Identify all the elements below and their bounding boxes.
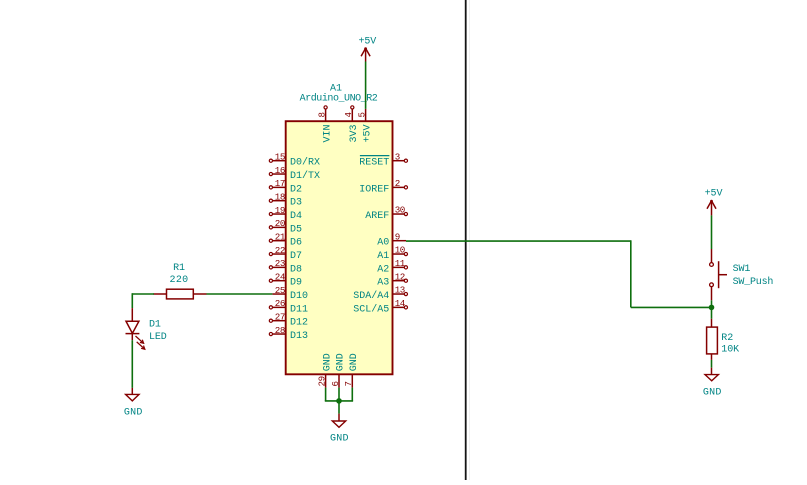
pin 18 D3 — [269, 191, 302, 208]
svg-text:A0: A0 — [377, 238, 389, 249]
R1 reference label — [173, 263, 185, 274]
resistor R1 — [153, 289, 206, 299]
ground symbol (right) — [705, 368, 718, 381]
resistor R2 — [707, 319, 718, 360]
svg-text:GND: GND — [336, 353, 347, 371]
svg-text:R2: R2 — [721, 333, 733, 344]
svg-text:30: 30 — [395, 205, 405, 216]
R2 value 10K — [721, 344, 739, 355]
svg-text:+5V: +5V — [358, 37, 376, 48]
wire D10 to R1 — [207, 293, 273, 295]
wire to junction — [631, 306, 712, 308]
pin 11 A2 — [377, 258, 407, 275]
pin 2 IOREF — [359, 178, 407, 195]
pin 12 A3 — [377, 271, 407, 288]
svg-text:GND: GND — [124, 408, 143, 419]
svg-text:+5V: +5V — [362, 124, 373, 142]
svg-text:25: 25 — [275, 285, 285, 296]
svg-text:9: 9 — [395, 231, 400, 242]
pin 3 RESET — [359, 151, 407, 168]
svg-text:D1/TX: D1/TX — [290, 170, 320, 182]
svg-text:D9: D9 — [290, 278, 302, 289]
svg-text:SCL/A5: SCL/A5 — [353, 303, 389, 315]
svg-text:D4: D4 — [290, 211, 302, 222]
svg-text:17: 17 — [275, 178, 285, 189]
svg-text:28: 28 — [275, 325, 285, 336]
svg-text:A3: A3 — [377, 278, 389, 289]
R2 reference label — [721, 333, 733, 344]
pin 28 D13 — [269, 325, 308, 342]
pin 16 D1/TX — [269, 165, 320, 182]
svg-text:A1: A1 — [330, 83, 342, 94]
svg-text:23: 23 — [275, 258, 285, 269]
pin 29 GND — [316, 353, 333, 387]
svg-text:15: 15 — [275, 152, 285, 163]
svg-text:A2: A2 — [377, 264, 389, 275]
svg-text:D5: D5 — [290, 224, 302, 235]
svg-text:D10: D10 — [290, 291, 308, 302]
svg-text:R1: R1 — [173, 263, 185, 274]
wire pin29 down — [325, 388, 327, 401]
svg-text:D13: D13 — [290, 331, 308, 342]
svg-text:16: 16 — [275, 165, 285, 176]
value Arduino_UNO_R2 — [300, 93, 378, 105]
svg-text:IOREF: IOREF — [359, 184, 389, 195]
GND value label (right) — [703, 388, 722, 399]
wire +5V to pin 5 — [365, 62, 367, 109]
svg-text:SW_Push: SW_Push — [733, 276, 774, 288]
wire SW1 to junction — [711, 300, 713, 307]
svg-text:D2: D2 — [290, 184, 302, 195]
GND value label (left) — [124, 408, 143, 419]
ground symbol (below Arduino) — [332, 414, 345, 428]
svg-text:21: 21 — [275, 231, 286, 242]
svg-text:GND: GND — [703, 388, 722, 399]
wire pin7 down — [351, 388, 353, 401]
svg-text:5: 5 — [356, 112, 367, 117]
svg-text:VIN: VIN — [322, 124, 333, 142]
svg-text:SDA/A4: SDA/A4 — [353, 290, 389, 302]
svg-text:3: 3 — [395, 151, 400, 162]
svg-text:+5V: +5V — [705, 189, 723, 200]
svg-text:26: 26 — [275, 298, 285, 309]
pin 26 D11 — [269, 298, 308, 315]
svg-text:6: 6 — [330, 381, 341, 386]
svg-text:LED: LED — [149, 332, 167, 343]
SW1 reference label — [733, 264, 751, 275]
svg-text:10: 10 — [395, 245, 405, 256]
svg-text:11: 11 — [395, 258, 406, 269]
pin 25 D10 — [272, 285, 308, 302]
svg-text:27: 27 — [275, 311, 285, 322]
svg-text:18: 18 — [275, 191, 285, 202]
svg-text:7: 7 — [343, 381, 354, 386]
svg-text:24: 24 — [275, 271, 286, 282]
pin 17 D2 — [269, 178, 302, 195]
pin 30 AREF — [365, 205, 407, 222]
wire A0 vertical drop — [630, 240, 632, 307]
wire A0 horizontal — [406, 240, 631, 242]
junction gnd bus — [336, 398, 342, 404]
wire LED to GND — [131, 340, 133, 388]
GND value label (below Arduino) — [330, 433, 349, 444]
+5V value label (right) — [705, 189, 723, 200]
IC A1 Arduino_UNO_R2 body — [286, 121, 393, 374]
pin 7 GND — [343, 353, 360, 387]
ground symbol (left) — [126, 388, 139, 401]
pin 8 VIN — [316, 106, 333, 143]
pin 4 3V3 — [343, 106, 360, 143]
svg-text:GND: GND — [322, 353, 333, 371]
svg-text:GND: GND — [330, 433, 349, 444]
reference A1 — [330, 83, 342, 94]
wire R2 to GND — [711, 360, 713, 368]
pin 24 D9 — [269, 271, 302, 288]
svg-text:8: 8 — [316, 112, 327, 117]
svg-text:D1: D1 — [149, 319, 161, 330]
sheet divider line — [465, 0, 470, 480]
SW1 value SW_Push — [733, 276, 774, 288]
svg-text:RESET: RESET — [359, 158, 389, 169]
power symbol +5V (right) — [707, 200, 716, 216]
pin 14 SCL/A5 — [353, 298, 407, 315]
pin 9 A0 — [377, 231, 406, 248]
pin 20 D5 — [269, 218, 302, 235]
wire pin6 down to gnd — [338, 388, 340, 414]
wire junction to R2 — [711, 307, 713, 318]
svg-text:20: 20 — [275, 218, 285, 229]
LED D1 — [126, 308, 145, 349]
svg-text:29: 29 — [316, 376, 327, 386]
svg-text:GND: GND — [349, 353, 360, 371]
svg-text:A1: A1 — [377, 251, 389, 262]
pin 19 D4 — [269, 205, 302, 222]
wire gnd bus horizontal — [325, 400, 353, 402]
svg-text:D8: D8 — [290, 264, 302, 275]
svg-text:10K: 10K — [721, 344, 739, 355]
pin 13 SDA/A4 — [353, 285, 407, 302]
pin 21 D6 — [269, 231, 302, 248]
junction node A0/SW1/R2 — [709, 305, 715, 311]
pin 5 +5V — [356, 109, 373, 143]
svg-text:D11: D11 — [290, 304, 308, 315]
wire R1 to corner — [132, 293, 154, 295]
svg-text:13: 13 — [395, 285, 405, 296]
svg-text:D3: D3 — [290, 198, 302, 209]
svg-text:19: 19 — [275, 205, 285, 216]
R1 value 220 — [169, 275, 188, 286]
svg-text:14: 14 — [395, 298, 406, 309]
pin 10 A1 — [377, 245, 407, 262]
svg-text:D12: D12 — [290, 318, 308, 329]
svg-text:D7: D7 — [290, 251, 302, 262]
wire corner down to LED — [131, 293, 133, 308]
svg-text:12: 12 — [395, 271, 405, 282]
pin 15 D0/RX — [269, 152, 320, 169]
switch SW1 SW_Push — [710, 249, 727, 300]
D1 value LED — [149, 332, 167, 343]
wire +5V to SW1 — [711, 215, 713, 249]
power symbol +5V (top) — [361, 47, 370, 61]
svg-text:AREF: AREF — [365, 211, 389, 222]
pin 27 D12 — [269, 311, 308, 328]
+5V value label (top) — [358, 37, 376, 48]
pin 22 D7 — [269, 245, 302, 262]
svg-text:D0/RX: D0/RX — [290, 157, 320, 169]
svg-text:3V3: 3V3 — [349, 124, 360, 142]
svg-text:SW1: SW1 — [733, 264, 751, 275]
svg-text:D6: D6 — [290, 238, 302, 249]
pin 6 GND — [330, 353, 347, 387]
svg-text:2: 2 — [395, 178, 400, 189]
svg-text:22: 22 — [275, 245, 285, 256]
pin 23 D8 — [269, 258, 302, 275]
svg-text:220: 220 — [169, 275, 188, 286]
D1 reference label — [149, 319, 161, 330]
